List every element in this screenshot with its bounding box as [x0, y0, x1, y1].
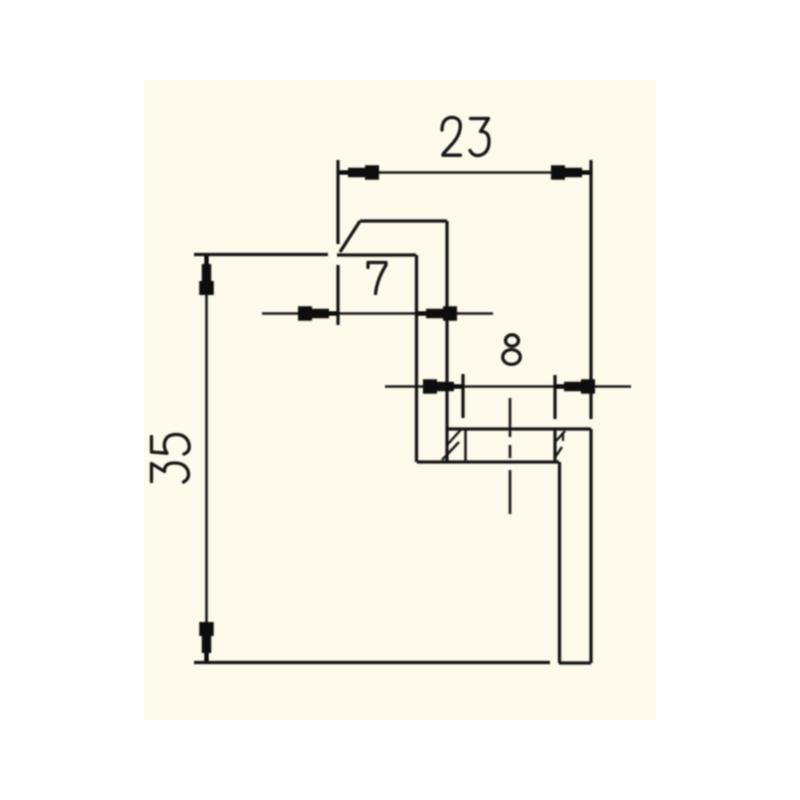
profile right leg inner edge: [558, 462, 561, 663]
hatch stroke 1: [448, 430, 461, 445]
hatch stroke 2: [442, 442, 459, 460]
profile right leg outer edge: [589, 429, 592, 663]
dim 23 arrow left: [339, 165, 379, 180]
dim 35 dimension line: [205, 255, 208, 662]
dim 7 arrow right: [417, 306, 457, 321]
profile web outer edge: [445, 221, 448, 462]
profile top edge: [360, 219, 447, 222]
profile web inner edge: [415, 255, 418, 462]
dim 7 extension line: [336, 265, 339, 325]
dim 7 dimension line: [262, 312, 493, 315]
hatch stroke 3: [556, 431, 565, 441]
dim text 35 digit 5 (rotated): [152, 435, 190, 455]
dim 35 arrow bottom: [199, 622, 214, 662]
hatch stroke 4: [562, 432, 564, 441]
dim 8 arrow right: [555, 379, 595, 394]
dim text 7: [368, 263, 386, 294]
dim 35 extension line bottom: [194, 661, 550, 664]
hatch section leg wall left boundary: [553, 429, 556, 462]
dim 23 arrow right: [551, 165, 591, 180]
hatch section web wall right boundary: [464, 429, 467, 462]
cream drawing sheet: [144, 80, 656, 720]
dim 23 dimension line: [339, 171, 591, 174]
dim 8 arrow left: [423, 379, 463, 394]
profile bottom flange bottom edge: [417, 460, 559, 463]
dim text 23 digit 3: [470, 119, 489, 156]
dim 8 extension line left: [461, 374, 464, 418]
profile chamfer top-left: [340, 221, 360, 252]
profile right leg bottom edge: [559, 661, 591, 664]
dim text 23 digit 2: [442, 117, 461, 155]
profile inner top edge: [337, 253, 416, 256]
dim 35 arrow top: [199, 255, 214, 295]
dim 23 extension line right: [589, 160, 592, 419]
hatch stroke 5: [556, 447, 562, 456]
dim 8 dimension line: [385, 385, 631, 388]
profile bottom flange top edge: [447, 427, 591, 430]
dim text 8 top loop: [506, 335, 519, 346]
dim 23 extension line left: [336, 160, 339, 244]
dim 35 extension line top: [194, 253, 328, 256]
dim 8 extension line right: [553, 375, 556, 419]
center line (dash-dot): [509, 398, 512, 514]
dim text 8 bottom loop: [503, 350, 521, 365]
dim text 35 digit 3 (rotated): [152, 463, 189, 482]
dim 7 arrow left: [298, 306, 338, 321]
